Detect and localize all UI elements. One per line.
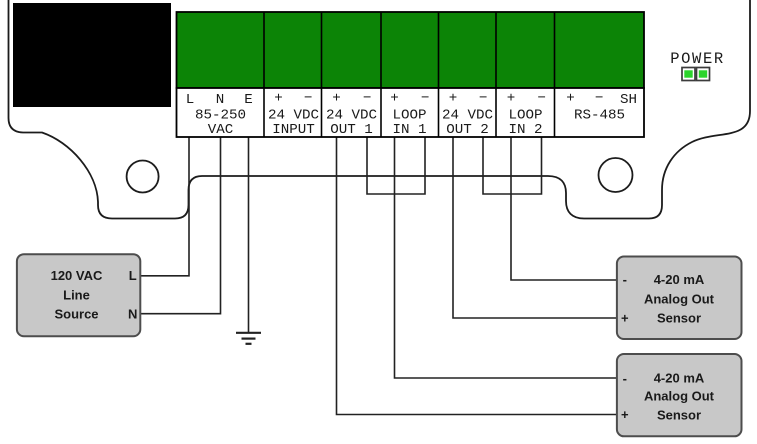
svg-text:+: +: [449, 91, 458, 107]
sensor 1 box (4-20mA analog out): [617, 257, 742, 340]
svg-text:IN 1: IN 1: [392, 122, 426, 138]
svg-text:+: +: [507, 91, 516, 107]
svg-text:+: +: [621, 407, 629, 422]
wire jumper OUT1 - to LOOP IN1 -: [367, 137, 425, 194]
sensor 2 box (4-20mA analog out): [617, 354, 742, 436]
svg-text:INPUT: INPUT: [272, 122, 315, 138]
svg-text:4-20 mA: 4-20 mA: [654, 272, 705, 287]
svg-text:+: +: [566, 91, 575, 107]
svg-text:Line: Line: [63, 287, 90, 302]
svg-text:RS-485: RS-485: [574, 108, 625, 124]
svg-text:OUT 1: OUT 1: [330, 122, 373, 138]
power LED 1: [682, 68, 695, 81]
wire 24VDC OUT1 + to sensor2 +: [337, 137, 618, 415]
svg-text:IN 2: IN 2: [508, 122, 542, 138]
terminal block green strip: [177, 12, 645, 88]
svg-text:POWER: POWER: [670, 50, 725, 68]
svg-text:−: −: [421, 91, 430, 107]
device case outline: [9, 0, 751, 219]
wire jumper OUT2 - to LOOP IN2 -: [483, 137, 542, 194]
svg-text:−: −: [479, 91, 488, 107]
terminal label row white boxes: [177, 88, 645, 137]
LCD display: [13, 3, 171, 107]
svg-text:Sensor: Sensor: [657, 408, 701, 423]
svg-text:-: -: [623, 371, 627, 386]
svg-text:−: −: [363, 91, 372, 107]
right mounting hole: [599, 158, 633, 192]
svg-text:SH: SH: [620, 92, 637, 108]
svg-text:L: L: [129, 268, 137, 283]
svg-text:120 VAC: 120 VAC: [51, 268, 103, 283]
terminal LOOP IN1 labels: [390, 91, 429, 138]
wire LOOP IN2 + to sensor1 -: [511, 137, 617, 280]
svg-text:Source: Source: [54, 307, 98, 322]
svg-text:L: L: [186, 92, 195, 108]
svg-text:+: +: [390, 91, 399, 107]
120 VAC line source box: [17, 254, 140, 336]
svg-text:N: N: [128, 307, 137, 322]
wire N terminal to 120VAC box: [140, 137, 220, 314]
terminal RS-485 labels: [566, 91, 637, 124]
svg-text:+: +: [621, 310, 629, 325]
terminal 24VDC INPUT labels: [268, 91, 319, 138]
wire L terminal to 120VAC box: [140, 137, 189, 276]
terminal LOOP IN2 labels: [507, 91, 546, 138]
svg-text:4-20 mA: 4-20 mA: [654, 371, 705, 386]
left mounting hole: [127, 161, 159, 193]
wire LOOP IN1 + to sensor2 -: [395, 137, 618, 378]
svg-text:N: N: [216, 92, 225, 108]
ground symbol: [236, 333, 261, 344]
svg-text:−: −: [595, 91, 604, 107]
svg-text:Sensor: Sensor: [657, 311, 701, 326]
terminal dividers: [264, 12, 555, 137]
svg-text:Analog Out: Analog Out: [644, 291, 715, 306]
svg-text:Analog Out: Analog Out: [644, 389, 715, 404]
wire E terminal to ground: [248, 137, 250, 333]
svg-text:E: E: [244, 92, 253, 108]
power LED 2: [697, 68, 710, 81]
terminal 85-250 VAC labels: [186, 92, 253, 138]
svg-text:-: -: [623, 272, 627, 287]
terminal 24VDC OUT2 labels: [442, 91, 493, 138]
wire 24VDC OUT2 + to sensor1 +: [453, 137, 617, 318]
svg-text:OUT 2: OUT 2: [446, 122, 489, 138]
svg-text:VAC: VAC: [208, 122, 234, 138]
terminal 24VDC OUT1 labels: [326, 91, 377, 138]
svg-text:−: −: [304, 91, 313, 107]
svg-text:−: −: [537, 91, 546, 107]
svg-text:+: +: [274, 91, 283, 107]
svg-text:+: +: [332, 91, 341, 107]
